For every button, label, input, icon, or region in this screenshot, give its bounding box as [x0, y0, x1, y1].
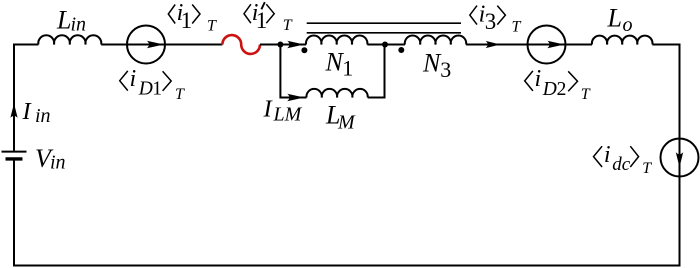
svg-text:T: T — [175, 86, 185, 103]
polarity dot N1 — [301, 47, 307, 53]
svg-text:3: 3 — [485, 9, 497, 34]
svg-text:in: in — [71, 14, 87, 36]
svg-text:2: 2 — [557, 79, 567, 100]
magnetizing branch wire left/down — [280, 45, 306, 98]
arrowhead current ILM — [287, 94, 304, 101]
svg-text:N: N — [422, 49, 442, 78]
wire Lin to red break (passes through D1 circle) — [101, 44, 222, 46]
magnetizing branch wire right/up — [368, 45, 385, 98]
wire N1 to N3 — [367, 44, 405, 46]
svg-text:1: 1 — [256, 8, 267, 33]
current source circle D2 — [528, 26, 566, 64]
node junction dot A — [277, 42, 283, 48]
svg-text:in: in — [50, 152, 66, 174]
red perturbation squiggle — [222, 35, 260, 54]
svg-text:T: T — [283, 17, 293, 34]
winding N3 — [405, 36, 466, 45]
svg-text:T: T — [642, 160, 652, 177]
svg-text:o: o — [623, 14, 633, 36]
wire Lo to right rail, bottom rail, left rail lower — [14, 45, 680, 266]
svg-text:1: 1 — [152, 79, 162, 100]
svg-text:LM: LM — [273, 104, 303, 126]
current source circle idc — [661, 139, 699, 177]
winding N1 — [306, 36, 367, 45]
svg-text:i: i — [130, 66, 137, 92]
wire N3 to Lo (passes through D2 circle) — [466, 44, 592, 46]
svg-text:D: D — [138, 79, 153, 100]
svg-text:i: i — [604, 142, 611, 168]
arrowhead inside D2 — [547, 41, 564, 48]
svg-text:D: D — [542, 79, 557, 100]
current source circle D1 — [127, 26, 165, 64]
polarity dot N3 — [398, 47, 404, 53]
inductor Lo — [592, 36, 653, 45]
battery Vin short plate — [6, 157, 23, 160]
label <idc>T — [594, 142, 653, 177]
svg-text:dc: dc — [612, 154, 631, 175]
svg-text:T: T — [512, 18, 522, 35]
label <iD2>T — [525, 66, 591, 103]
label <iD1>T — [120, 66, 185, 103]
svg-text:1: 1 — [342, 56, 353, 81]
label <i1>T — [168, 0, 217, 35]
svg-text:i: i — [535, 66, 542, 92]
svg-text:3: 3 — [440, 57, 451, 82]
svg-text:T: T — [207, 18, 217, 35]
arrowhead current i3 — [486, 41, 501, 48]
svg-text:T: T — [581, 86, 591, 103]
inductor LM — [306, 89, 367, 98]
wire top-left segment and left rail upper — [14, 45, 38, 151]
inductor Lin — [38, 35, 101, 44]
battery Vin long plate — [2, 151, 27, 153]
node junction dot B — [382, 42, 388, 48]
arrowhead current Iin (up) on left rail — [10, 103, 17, 118]
svg-text:M: M — [337, 111, 356, 133]
svg-text:1: 1 — [181, 8, 193, 33]
svg-text:L: L — [607, 4, 622, 33]
transformer core lines — [307, 22, 461, 24]
arrowhead current i1' into N1 — [287, 41, 304, 48]
wire red break to N1 — [260, 44, 306, 46]
svg-text:L: L — [56, 5, 71, 34]
arrowhead inside idc (down) — [676, 152, 683, 167]
svg-text:in: in — [35, 105, 51, 127]
label <i1p>T — [244, 0, 293, 34]
label <i3>T — [470, 1, 522, 35]
arrowhead inside D1 — [147, 41, 164, 48]
